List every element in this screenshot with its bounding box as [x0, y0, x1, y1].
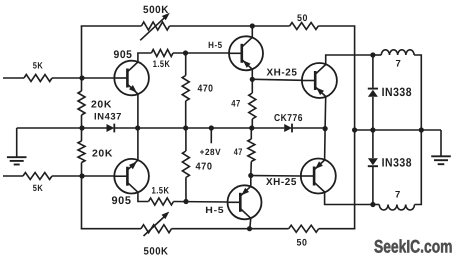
wire: bottom rail mid segment — [172, 228, 289, 230]
inductor T1 (top coil) — [381, 50, 414, 55]
node: R9 / R11 junction — [183, 50, 188, 55]
svg-text:IN437: IN437 — [94, 112, 122, 123]
label D1 IN437 — [94, 112, 122, 123]
label Q3 H-5 — [208, 40, 223, 50]
wire: Q2 collector to 1.5K — [138, 192, 149, 202]
resistor R13 47 (top) — [249, 79, 256, 128]
label T2 value 7 — [395, 190, 401, 201]
wire: output mid rail — [355, 129, 441, 131]
svg-text:5K: 5K — [33, 183, 44, 193]
label R5 500K — [143, 4, 169, 16]
node: R10 / R12 junction — [183, 199, 188, 204]
wire: left rail upper segment — [81, 78, 83, 91]
wire: R9 to Q3 base — [173, 52, 229, 54]
label Q6 XH-25 — [266, 177, 297, 188]
wire: Q4 collector to bottom rail — [250, 218, 251, 229]
wire: top rail left segment — [81, 25, 142, 27]
watermark SeekIC.com — [374, 236, 453, 256]
potentiometer R6 500K (bottom) — [141, 212, 172, 237]
wire: D1 to Q1/Q2 emitter node — [114, 127, 138, 129]
transistor Q2 905 (lower input) — [114, 159, 149, 194]
wire: Q6 emitter to output node — [325, 192, 373, 204]
label R11 470 — [198, 84, 214, 95]
label T1 value 7 — [395, 59, 401, 70]
node: diode chain / output mid — [370, 127, 375, 132]
node: +28V tap — [209, 125, 214, 130]
svg-text:7: 7 — [395, 190, 401, 201]
svg-text:50: 50 — [297, 13, 308, 24]
node: Q3 emitter / Q5 base / 47 — [250, 77, 255, 82]
wire: R1 to Q1 base — [52, 77, 114, 79]
wire: Q4 emitter node to Q6 base — [251, 175, 301, 178]
resistor R7 50 (top) — [290, 23, 319, 30]
svg-text:7: 7 — [395, 59, 401, 70]
node: left rail / center rail — [79, 125, 84, 130]
svg-text:SeekIC.com: SeekIC.com — [374, 236, 453, 256]
label R14 47 — [234, 147, 243, 158]
node: Q3 collector / top rail — [250, 23, 255, 28]
resistor R4 20K (lower bias) — [78, 141, 85, 163]
wire: Q3 emitter node to Q5 base — [252, 79, 302, 80]
label R2 5K — [33, 183, 44, 193]
node: Q1/Q2 emitters on center rail — [135, 125, 140, 130]
node: input A / bias junction — [79, 75, 84, 80]
svg-text:500K: 500K — [143, 4, 169, 16]
resistor R9 1.5K (top) — [151, 50, 173, 57]
label R3 20K — [91, 100, 112, 111]
svg-text:CK776: CK776 — [274, 113, 303, 124]
svg-text:20K: 20K — [91, 100, 112, 111]
wire: center rail 470 node to +28V tap — [186, 127, 212, 129]
wire: center rail to 470 node — [138, 127, 186, 129]
wire: D2 to Q5/Q6 node — [292, 127, 326, 129]
svg-text:H-5: H-5 — [208, 40, 223, 50]
svg-text:5K: 5K — [33, 61, 44, 71]
svg-text:H-5: H-5 — [205, 205, 224, 215]
transistor Q3 H-5 (upper driver) — [229, 36, 263, 70]
wire: center rail gnd to D1 — [17, 127, 107, 129]
diode D2 CK776 — [284, 124, 292, 133]
svg-text:IN338: IN338 — [382, 85, 413, 99]
wire: D3 anode stem — [372, 55, 374, 88]
ground (left) — [7, 128, 27, 165]
wire: D4 cathode stem — [372, 166, 374, 204]
diode D4 IN338 (bottom) — [368, 158, 378, 166]
wire: left rail top corner — [81, 26, 83, 77]
resistor R11 470 (top) — [182, 53, 189, 128]
node: Q5 emitter / Q6 collector — [323, 126, 328, 131]
wire: R3 to center rail — [81, 115, 83, 128]
ground (right) — [431, 130, 451, 164]
label R13 47 — [231, 98, 241, 109]
svg-text:905: 905 — [114, 49, 133, 61]
wire: T1 to right coil rail — [414, 55, 421, 130]
transistor Q1 905 (upper input) — [114, 61, 149, 96]
wire: output mid to D4 — [372, 130, 374, 158]
svg-text:470: 470 — [198, 84, 214, 95]
node: right rail / output mid — [352, 127, 357, 132]
diode D3 IN338 (top) — [368, 89, 378, 97]
transistor Q5 XH-25 (upper output) — [302, 63, 337, 98]
diode D1 IN437 — [107, 124, 115, 133]
svg-text:1.5K: 1.5K — [152, 186, 170, 197]
node: T1 top / D3 junction — [370, 52, 375, 57]
label R4 20K — [92, 149, 113, 160]
wire: Q1 collector to 1.5K — [138, 53, 152, 62]
label R8 50 — [297, 238, 308, 249]
label +28V — [200, 147, 222, 157]
wire: Q2 emitter to center rail — [137, 128, 139, 160]
resistor R1 5K (input A) — [24, 75, 52, 82]
potentiometer R5 500K (top) — [140, 13, 170, 41]
wire: center rail to R4 — [81, 128, 83, 141]
svg-text:1.5K: 1.5K — [153, 59, 171, 70]
svg-text:IN338: IN338 — [382, 156, 413, 170]
node: coil rail / output mid — [419, 127, 424, 132]
wire: T2 to right coil rail — [415, 130, 422, 205]
svg-text:XH-25: XH-25 — [267, 67, 298, 78]
label Q2 905 — [112, 195, 132, 207]
wire: Q3 emitter down — [251, 69, 253, 79]
wire: input A lead-in — [3, 77, 24, 79]
node: 470s / center rail — [183, 125, 188, 130]
wire: center rail +28V to 47 node — [211, 127, 252, 129]
svg-text:+28V: +28V — [200, 147, 222, 157]
svg-text:500K: 500K — [144, 246, 169, 258]
wire: R2 to Q2 base — [52, 175, 114, 177]
supply +28V stem — [210, 128, 212, 143]
resistor R3 20K (upper bias) — [78, 91, 85, 115]
transistor Q4 H-5 (lower driver) — [228, 185, 262, 219]
resistor R14 47 (bottom) — [248, 128, 255, 176]
label R12 470 — [196, 161, 213, 172]
wire: bottom rail left segment — [81, 228, 141, 230]
label Q5 XH-25 — [267, 67, 298, 78]
wire: left rail lower segment — [81, 176, 83, 229]
wire: bottom rail right segment — [319, 228, 356, 230]
svg-text:47: 47 — [234, 147, 243, 158]
transistor Q6 XH-25 (lower output) — [301, 159, 336, 194]
wire: node to T2 — [373, 204, 379, 206]
node: input B / bias junction — [79, 173, 84, 178]
label R1 5K — [33, 61, 44, 71]
resistor R10 1.5K (bottom) — [149, 198, 174, 205]
label R10 1.5K — [152, 186, 170, 197]
label R6 500K — [144, 246, 169, 258]
resistor R12 470 (bottom) — [182, 128, 189, 202]
label D4 IN338 — [382, 156, 413, 170]
wire: Q5 emitter to center rail — [324, 97, 327, 128]
wire: Q4 emitter up — [250, 176, 252, 187]
wire: center rail 47 node to D2 — [252, 127, 284, 129]
label Q1 905 — [114, 49, 133, 61]
resistor R2 5K (input B) — [23, 173, 52, 180]
svg-text:XH-25: XH-25 — [266, 177, 297, 188]
wire: D3 to output mid — [372, 97, 374, 130]
wire: input B lead-in — [3, 175, 23, 177]
wire: R10 to Q4 base — [174, 201, 228, 204]
wire: Q5 collector to output node — [326, 55, 373, 64]
label R7 50 — [297, 13, 308, 24]
label R9 1.5K — [153, 59, 171, 70]
wire: R4 to input B junction — [81, 163, 83, 177]
svg-text:905: 905 — [112, 195, 132, 207]
wire: Q3 collector to top rail — [251, 26, 253, 38]
node: T2 bottom / D4 junction — [370, 202, 375, 207]
label D2 CK776 — [274, 113, 303, 124]
node: Q4 emitter / Q6 base / 47 — [248, 173, 253, 178]
inductor T2 (bottom coil) — [379, 205, 414, 211]
wire: node to T1 — [373, 54, 381, 56]
resistor R8 50 (bottom) — [289, 225, 319, 232]
svg-text:20K: 20K — [92, 149, 113, 160]
node: Q4 collector / bottom rail — [247, 226, 252, 231]
label Q4 H-5 — [205, 205, 224, 215]
wire: Q6 collector to center rail — [324, 129, 327, 160]
wire: top rail right segment + right drop — [318, 26, 354, 229]
svg-text:47: 47 — [231, 98, 241, 109]
node: 47s / center rail — [249, 125, 254, 130]
svg-text:470: 470 — [196, 161, 213, 172]
svg-text:50: 50 — [297, 238, 308, 249]
label D3 IN338 — [382, 85, 413, 99]
wire: Q1 emitter to center rail — [137, 94, 139, 128]
wire: top rail mid segment — [170, 25, 290, 27]
